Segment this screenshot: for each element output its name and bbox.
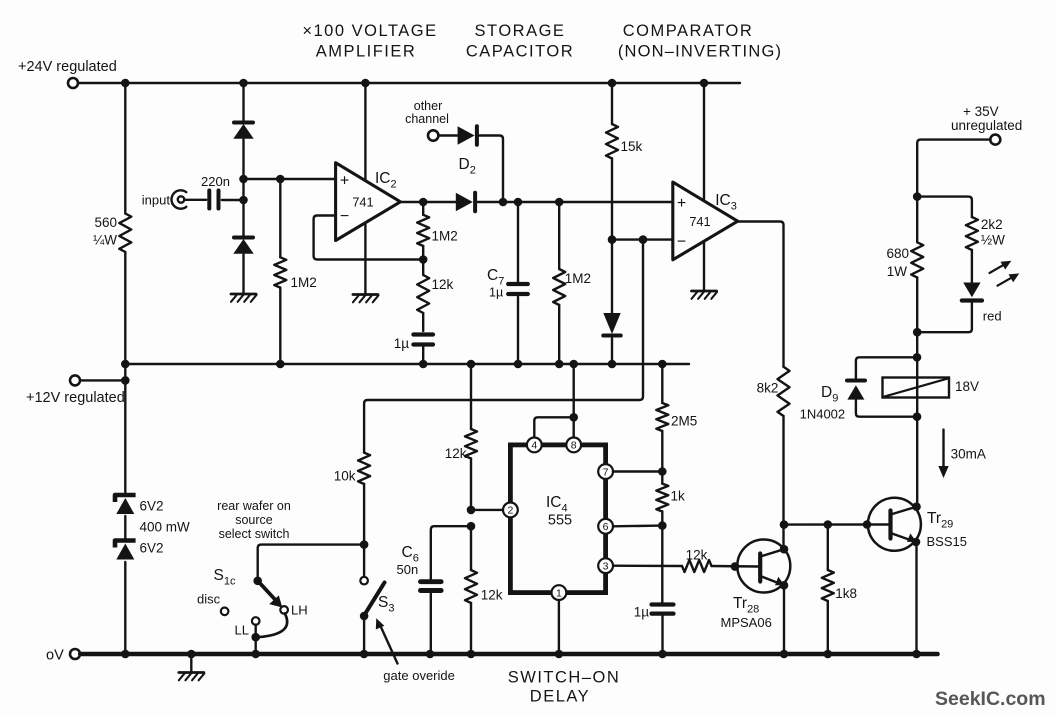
ground input clamp	[231, 294, 257, 302]
svg-text:input: input	[142, 193, 171, 208]
svg-text:220n: 220n	[201, 174, 230, 189]
resistor 560 1/4W	[93, 214, 131, 253]
wire IC2 V- to ground	[364, 224, 366, 295]
node other channel terminal	[405, 99, 449, 141]
node contact disc	[197, 592, 228, 616]
capacitor C6 50n	[397, 526, 472, 654]
junction dots on +12V rail	[121, 360, 667, 369]
node Tr28 collector net	[780, 520, 789, 553]
transistor Q Tr28 MPSA06	[721, 540, 791, 631]
watermark SeekIC.com	[935, 688, 1046, 710]
node +35V terminal	[951, 104, 1022, 145]
wire IC2 feedback to - input	[314, 216, 424, 260]
svg-text:MPSA06: MPSA06	[721, 615, 772, 630]
svg-text:source: source	[235, 513, 273, 527]
wire 555 supply pin8	[569, 364, 578, 438]
svg-text:+24V regulated: +24V regulated	[18, 59, 117, 75]
node contact LH	[280, 603, 307, 618]
svg-text:4: 4	[531, 440, 537, 452]
svg-text:8k2: 8k2	[757, 381, 779, 396]
node IC3 - input junction	[608, 235, 617, 244]
diode input clamp lower	[233, 238, 253, 254]
wire left column	[124, 83, 126, 654]
wire 35V feed	[917, 140, 990, 197]
wire pin1 to 0V	[558, 600, 560, 654]
title storage capacitor	[466, 22, 574, 61]
ground IC2	[353, 295, 379, 303]
ground on 0V rail	[179, 654, 205, 680]
wire Tr28 emitter	[783, 585, 785, 654]
svg-text:3: 3	[603, 561, 609, 573]
wire comparator reference net	[364, 240, 643, 453]
svg-text:channel: channel	[405, 112, 449, 126]
svg-text:2M5: 2M5	[671, 414, 697, 429]
svg-text:50n: 50n	[397, 562, 419, 577]
svg-text:12k: 12k	[481, 588, 503, 603]
wire S1c feed	[258, 545, 364, 581]
wire 10k to S3 contact	[363, 545, 365, 577]
svg-text:15k: 15k	[621, 139, 643, 154]
svg-text:SWITCH–ON: SWITCH–ON	[508, 669, 621, 687]
svg-text:+: +	[340, 173, 349, 190]
node storage junctions	[499, 198, 564, 207]
svg-text:−: −	[677, 234, 686, 251]
diode IC2 output series	[456, 193, 672, 211]
svg-text:1W: 1W	[887, 264, 908, 279]
svg-text:741: 741	[352, 195, 373, 210]
svg-text:oV: oV	[46, 648, 64, 664]
relay coil 18V	[883, 378, 980, 398]
svg-text:1k8: 1k8	[835, 586, 857, 601]
wire IC3 V+ supply	[703, 83, 705, 200]
node +12V terminal	[26, 375, 125, 406]
node contact LL	[235, 617, 260, 637]
svg-text:1N4002: 1N4002	[800, 407, 846, 422]
svg-text:8: 8	[571, 440, 577, 452]
op-amp U IC3 741	[673, 182, 738, 260]
switch S1c wiper	[214, 567, 283, 608]
wire IC3 V- to ground	[703, 242, 705, 291]
svg-text:1M2: 1M2	[432, 229, 458, 244]
pin 6	[598, 519, 613, 534]
node pin7 junction	[613, 467, 667, 476]
node input connector	[142, 190, 187, 208]
svg-text:¼W: ¼W	[93, 233, 117, 248]
svg-text:unregulated: unregulated	[951, 118, 1022, 133]
node relay bottom	[913, 412, 922, 421]
svg-text:−: −	[340, 208, 349, 225]
resistor 1k	[656, 472, 685, 526]
op-amp U IC2 741	[336, 163, 401, 241]
ic IC4 555 box	[510, 445, 605, 593]
diode D2	[438, 126, 503, 202]
resistor 2k2 half W	[966, 217, 1005, 250]
node 0V terminal	[46, 648, 80, 664]
resistor 1M2 feedback	[417, 202, 458, 264]
wire IC2 output	[400, 198, 455, 207]
svg-text:DELAY: DELAY	[530, 688, 590, 706]
svg-text:(NON–INVERTING): (NON–INVERTING)	[618, 43, 782, 61]
junction dots on +24V rail	[121, 79, 708, 88]
pin 1	[552, 585, 567, 600]
svg-text:1µ: 1µ	[489, 286, 503, 300]
resistor 1M2 storage	[553, 202, 591, 364]
led red	[917, 250, 1019, 332]
resistor 12k base Tr28	[613, 548, 758, 573]
diode threshold	[603, 313, 620, 364]
svg-text:+: +	[677, 195, 686, 212]
svg-text:COMPARATOR: COMPARATOR	[623, 22, 754, 40]
pin 3	[598, 558, 613, 573]
junction dots on 0V rail	[121, 650, 921, 659]
resistor 10k	[334, 453, 370, 549]
svg-text:1M2: 1M2	[291, 275, 317, 290]
capacitor 220n	[185, 174, 244, 209]
wire relay column upper	[913, 332, 922, 507]
svg-text:+ 35V: + 35V	[963, 104, 999, 119]
wire to op-amp + input	[244, 175, 336, 184]
svg-text:555: 555	[548, 513, 572, 529]
zener diode 6V2 upper	[115, 495, 164, 514]
svg-text:2k2: 2k2	[981, 217, 1003, 232]
svg-text:400 mW: 400 mW	[140, 520, 191, 535]
svg-text:LL: LL	[235, 623, 249, 638]
svg-text:other: other	[414, 99, 443, 113]
wire IC3 - input	[612, 235, 673, 244]
svg-text:1µ: 1µ	[394, 336, 410, 351]
resistor 15k	[606, 83, 643, 240]
svg-text:SeekIC.com: SeekIC.com	[935, 688, 1046, 710]
svg-text:741: 741	[689, 214, 710, 229]
wire +12V terminal stub	[80, 376, 129, 385]
svg-text:12k: 12k	[445, 446, 467, 461]
resistor 1k8	[822, 520, 857, 654]
resistor 12k upper	[445, 364, 477, 510]
label rear wafer note	[217, 499, 291, 541]
wire 2k2 branch top	[917, 197, 972, 217]
resistor 2M5	[656, 364, 697, 472]
svg-text:STORAGE: STORAGE	[475, 22, 566, 40]
resistor 12k feedback	[417, 260, 453, 332]
svg-text:LH: LH	[291, 603, 308, 618]
ground IC3	[692, 291, 718, 299]
diode D9 1N4002	[800, 357, 917, 421]
resistor 8k2	[757, 367, 790, 549]
resistor 680 1W	[886, 197, 923, 333]
wire Tr29 emitter	[915, 542, 917, 654]
capacitor 1u feedback	[394, 335, 433, 365]
svg-text:12k: 12k	[432, 277, 454, 292]
wire LH to LL link	[258, 613, 287, 637]
svg-text:1µ: 1µ	[634, 605, 650, 620]
svg-text:disc: disc	[197, 592, 221, 607]
wire 0V rail	[80, 652, 937, 657]
diode input clamp upper	[233, 123, 253, 139]
pin 4	[527, 438, 542, 453]
title switch-on delay	[508, 669, 621, 706]
svg-text:12k: 12k	[686, 548, 708, 563]
resistor 12k lower	[465, 526, 503, 654]
pin 8	[566, 438, 581, 453]
node LED branch top	[913, 192, 922, 201]
pin 2	[503, 503, 518, 518]
svg-text:BSS15: BSS15	[927, 534, 967, 549]
wire +24V rail	[78, 82, 740, 84]
svg-text:560: 560	[94, 215, 117, 230]
wire pin2 net	[471, 509, 503, 511]
svg-text:30mA: 30mA	[951, 447, 986, 462]
wire IC2 V+ supply	[364, 83, 366, 180]
svg-text:+12V regulated: +12V regulated	[26, 390, 125, 406]
svg-text:1k: 1k	[671, 489, 686, 504]
svg-text:AMPLIFIER: AMPLIFIER	[316, 43, 417, 61]
wire 555 pin4 loop	[534, 417, 573, 437]
svg-text:2: 2	[507, 505, 513, 517]
wire input diode column	[242, 83, 244, 294]
svg-text:red: red	[983, 309, 1002, 324]
svg-text:CAPACITOR: CAPACITOR	[466, 43, 574, 61]
svg-text:6: 6	[603, 521, 609, 533]
pin 7	[598, 464, 613, 479]
wire IC3 output	[738, 222, 784, 367]
transistor Q Tr29 BSS15	[868, 498, 967, 551]
switch S3	[360, 577, 395, 654]
svg-text:1: 1	[556, 587, 562, 599]
svg-text:select switch: select switch	[219, 527, 290, 541]
capacitor 1u timing	[634, 526, 674, 654]
svg-text:18V: 18V	[955, 379, 979, 394]
title x100 voltage amplifier	[302, 22, 437, 61]
svg-text:10k: 10k	[334, 469, 356, 484]
svg-text:7: 7	[603, 466, 609, 478]
svg-text:6V2: 6V2	[140, 541, 164, 556]
node pin2 C6 junctions	[467, 506, 476, 531]
svg-text:6V2: 6V2	[140, 499, 164, 514]
capacitor C7 1u	[487, 202, 528, 364]
svg-text:1M2: 1M2	[565, 271, 591, 286]
svg-text:½W: ½W	[981, 233, 1005, 248]
label 400 mW	[140, 520, 191, 535]
node pin6 junction	[613, 521, 667, 530]
zener diode 6V2 lower	[115, 541, 164, 560]
wire +12V rail	[125, 363, 689, 365]
svg-text:rear wafer on: rear wafer on	[217, 499, 291, 513]
svg-text:gate overide: gate overide	[383, 668, 455, 683]
annotation 30mA arrow	[938, 430, 986, 478]
svg-text:680: 680	[886, 246, 909, 261]
wire LL to 0V	[251, 625, 260, 654]
wire 15k node down	[611, 240, 613, 313]
title comparator non-inverting	[618, 22, 782, 61]
node +24V terminal	[18, 59, 117, 88]
svg-text:×100 VOLTAGE: ×100 VOLTAGE	[302, 22, 437, 40]
wire Tr29 base net	[784, 520, 889, 529]
node input junction	[239, 175, 248, 205]
annotation gate overide	[376, 618, 455, 683]
resistor 1M2 input bias	[274, 179, 316, 364]
node LED branch bottom	[913, 328, 922, 337]
